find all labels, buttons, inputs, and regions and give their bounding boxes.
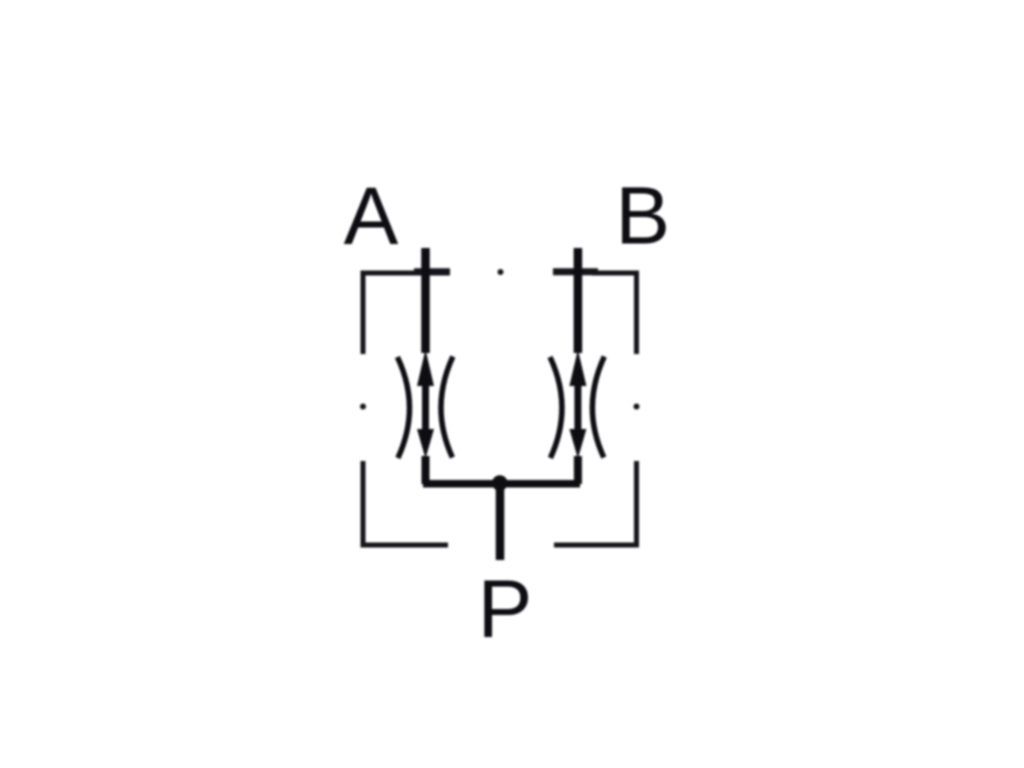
throttle arc right of A branch — [441, 357, 453, 458]
wire: port B vertical line — [574, 248, 583, 353]
port A crossbar tick — [414, 268, 450, 275]
arrow up (B branch) — [569, 350, 586, 387]
wire: B branch shaft between arrows — [574, 385, 581, 430]
arrow down (A branch) — [417, 429, 434, 459]
wire: P vertical line — [496, 484, 505, 561]
wire: B branch lower line to collector — [574, 456, 582, 484]
svg-text:B: B — [615, 171, 670, 262]
wire: port A vertical line — [421, 248, 430, 353]
port B crossbar tick — [553, 268, 598, 275]
junction node dot — [492, 475, 508, 491]
throttle arc left of B branch — [550, 357, 562, 458]
throttle arc right of B branch — [592, 357, 604, 458]
wire: A branch lower line to collector — [422, 456, 430, 484]
enclosure dashed box: top-center dot — [498, 269, 504, 275]
arrow down (B branch) — [569, 429, 586, 459]
wire: collector horizontal line — [423, 480, 580, 488]
arrow up (A branch) — [417, 350, 434, 387]
wire: A branch shaft between arrows — [422, 385, 429, 430]
enclosure dashed box: bottom-left segment with corner — [363, 461, 448, 545]
enclosure dashed box: right-edge dot — [634, 404, 640, 410]
enclosure dashed box: top-right segment with corner — [592, 273, 637, 354]
enclosure dashed box: top-left segment with corner — [363, 273, 450, 354]
svg-text:A: A — [344, 171, 399, 262]
throttle arc left of A branch — [397, 357, 409, 458]
svg-text:P: P — [478, 564, 533, 655]
enclosure dashed box: left-edge dot — [360, 404, 366, 410]
enclosure dashed box: bottom-right segment with corner — [554, 461, 637, 545]
